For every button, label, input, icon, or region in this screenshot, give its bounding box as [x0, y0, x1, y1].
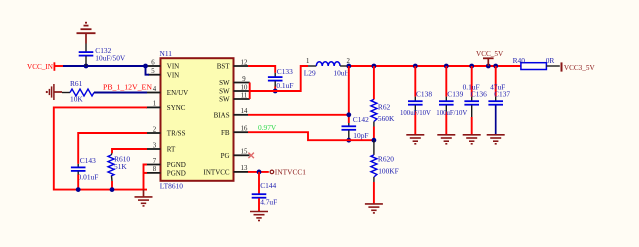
svg-text:C138: C138 — [416, 89, 432, 98]
svg-text:1: 1 — [306, 58, 309, 65]
pin 1 SYNC — [146, 101, 186, 112]
ground symbol C139 — [437, 135, 455, 144]
pin 13 INTVCC — [204, 165, 248, 176]
power port VCC_5V — [476, 50, 504, 66]
svg-text:7: 7 — [153, 158, 157, 165]
svg-text:9: 9 — [242, 76, 246, 83]
wire SW to L29 — [250, 66, 308, 91]
svg-text:R40: R40 — [513, 56, 526, 65]
capacitor C138 — [400, 66, 432, 134]
svg-text:12: 12 — [241, 59, 248, 66]
port VCC_IN — [27, 62, 63, 71]
junction C138 — [413, 64, 418, 69]
capacitor C139 — [436, 66, 467, 134]
no-connect X on pin 15 — [248, 153, 254, 159]
capacitor C142 — [342, 115, 370, 140]
svg-text:0R: 0R — [546, 56, 555, 65]
svg-text:VIN: VIN — [167, 71, 179, 79]
svg-text:8: 8 — [153, 166, 157, 173]
power symbol (earth style) above C132 — [77, 23, 96, 44]
pin 7 PGND — [144, 158, 186, 169]
ground symbol PGND — [135, 190, 153, 206]
svg-text:10: 10 — [241, 84, 248, 91]
svg-text:INTVCC: INTVCC — [204, 169, 230, 177]
pin 8 PGND — [144, 166, 186, 177]
svg-text:C137: C137 — [494, 89, 510, 98]
wire FB — [248, 132, 374, 140]
wire BIAS — [248, 114, 349, 116]
svg-text:C144: C144 — [260, 181, 276, 190]
svg-text:10pF: 10pF — [353, 131, 368, 140]
resistor R40 — [513, 56, 560, 69]
wire C143 to gnd rail — [77, 175, 79, 190]
svg-text:16: 16 — [241, 126, 248, 133]
svg-text:14: 14 — [241, 108, 248, 115]
junction C139 — [444, 64, 449, 69]
wire R61 to EN/UV — [94, 92, 147, 94]
resistor R620 — [371, 140, 399, 182]
wire SYNC loop — [54, 107, 147, 189]
resistor R610 — [108, 153, 130, 181]
ground symbol C136 — [463, 135, 481, 144]
pin 10 SW — [219, 84, 250, 95]
junction VCC_5V — [486, 64, 491, 69]
svg-text:13: 13 — [241, 165, 248, 172]
svg-text:C143: C143 — [80, 156, 96, 165]
capacitor C136 — [463, 66, 488, 134]
ground symbol C137 — [487, 135, 505, 144]
port VCC3_5V — [561, 62, 596, 72]
junction VIN pins — [143, 64, 148, 69]
junction BIAS/C142 — [346, 112, 351, 117]
wire VIN pin5 drop — [146, 66, 150, 75]
IC U-N11 LT8610 body — [161, 58, 234, 181]
pin 15 PG — [221, 149, 250, 160]
wire R620 to gnd — [373, 182, 375, 203]
svg-text:R62: R62 — [378, 102, 391, 111]
svg-text:VCC_IN: VCC_IN — [27, 63, 54, 71]
wire PGND pin8 stub — [144, 172, 148, 174]
pin 6 VIN — [146, 59, 180, 70]
svg-text:10K: 10K — [70, 95, 83, 104]
svg-text:C133: C133 — [277, 67, 293, 76]
wire BST to C133 — [248, 66, 275, 73]
svg-text:INTVCC1: INTVCC1 — [275, 167, 307, 176]
svg-text:11: 11 — [241, 92, 248, 99]
resistor R62 — [371, 66, 395, 127]
capacitor C144 — [252, 172, 278, 211]
svg-text:2: 2 — [153, 126, 157, 133]
wire PGND pins — [144, 165, 148, 190]
junction FB/R62/R620 — [372, 138, 377, 143]
svg-text:RT: RT — [167, 146, 176, 154]
svg-text:0.01uF: 0.01uF — [78, 173, 99, 182]
svg-text:BIAS: BIAS — [214, 111, 230, 119]
svg-text:BST: BST — [217, 63, 231, 71]
wire R62 to FB — [373, 127, 375, 141]
capacitor C137 — [488, 66, 510, 134]
svg-text:R620: R620 — [378, 154, 394, 163]
svg-text:C136: C136 — [471, 89, 487, 98]
svg-text:10uF/50V: 10uF/50V — [95, 53, 126, 62]
svg-text:0.1uF: 0.1uF — [276, 81, 293, 90]
junction VCC_IN/C132 — [84, 64, 89, 69]
junction L29/C142 branch — [346, 64, 351, 69]
svg-text:PG: PG — [221, 152, 230, 160]
svg-text:PGND: PGND — [167, 161, 186, 169]
svg-text:PGND: PGND — [167, 170, 186, 178]
junction C133/SW — [273, 89, 278, 94]
pin 2 TR/SS — [146, 126, 186, 137]
svg-text:TR/SS: TR/SS — [167, 130, 186, 138]
svg-text:VCC3_5V: VCC3_5V — [564, 64, 596, 72]
port INTVCC1 — [270, 167, 306, 176]
pin 14 BIAS — [214, 108, 248, 119]
junction C143/gnd rail — [76, 187, 81, 192]
svg-text:VCC_5V: VCC_5V — [476, 50, 504, 58]
svg-text:L29: L29 — [304, 68, 316, 77]
svg-text:EN/UV: EN/UV — [167, 89, 188, 97]
svg-text:LT8610: LT8610 — [160, 181, 183, 190]
capacitor C133 — [268, 67, 294, 90]
wire SW pins vertical — [249, 83, 251, 100]
svg-text:SW: SW — [219, 96, 230, 104]
junction C137 — [493, 64, 498, 69]
wire TR/SS to C143 — [78, 133, 147, 164]
svg-text:SW: SW — [219, 88, 230, 96]
capacitor C132 — [79, 44, 126, 67]
svg-text:1: 1 — [153, 101, 156, 108]
pin 12 BST — [217, 59, 250, 70]
svg-text:15: 15 — [241, 149, 248, 156]
svg-text:N11: N11 — [160, 49, 173, 58]
svg-text:C139: C139 — [447, 89, 463, 98]
svg-text:PB_1_12V_EN: PB_1_12V_EN — [103, 82, 152, 91]
wire VCC_IN to VIN — [63, 65, 147, 67]
svg-text:100KF: 100KF — [378, 166, 399, 175]
inductor L29 — [304, 58, 351, 77]
pin 4 EN/UV — [146, 86, 188, 97]
junction C142/FB — [346, 138, 351, 143]
svg-text:VIN: VIN — [167, 63, 179, 71]
junction R610/gnd rail — [110, 187, 115, 192]
svg-text:0.97V: 0.97V — [258, 123, 277, 132]
wire INTVCC — [248, 171, 269, 173]
wire VOUT rail — [349, 65, 521, 67]
svg-text:SYNC: SYNC — [167, 104, 186, 112]
svg-text:R61: R61 — [70, 79, 83, 88]
junction C136 — [469, 64, 474, 69]
signal-ground symbol left of R61 — [46, 84, 62, 100]
pin 3 RT — [146, 142, 176, 153]
junction R62 — [372, 64, 377, 69]
svg-text:SW: SW — [219, 79, 230, 87]
ground symbol C144 — [250, 212, 268, 221]
svg-text:100uF/10V: 100uF/10V — [436, 110, 467, 117]
svg-text:6: 6 — [151, 59, 155, 66]
svg-text:4.7uF: 4.7uF — [260, 198, 277, 207]
pin 9 SW — [219, 76, 250, 87]
svg-text:3: 3 — [153, 142, 157, 149]
capacitor C143 — [71, 156, 98, 181]
pin 5 VIN — [148, 68, 179, 79]
svg-text:FB: FB — [221, 129, 230, 137]
wire R610 to gnd rail — [111, 181, 113, 190]
wire C133 to SW rail — [274, 87, 276, 92]
junction INTVCC/C144 — [257, 170, 262, 175]
ground symbol R620 — [365, 204, 383, 213]
pin 11 SW — [219, 92, 250, 103]
svg-text:51K: 51K — [114, 162, 127, 171]
svg-text:100uF/10V: 100uF/10V — [400, 110, 431, 117]
wire VOUT down to BIAS and C142 — [348, 66, 350, 123]
resistor R61 — [62, 79, 94, 103]
pin 16 FB — [221, 126, 248, 137]
svg-text:C142: C142 — [353, 115, 369, 124]
svg-text:560K: 560K — [378, 114, 395, 123]
wire RT to R610 — [112, 149, 147, 153]
svg-text:5: 5 — [151, 68, 155, 75]
svg-text:4: 4 — [153, 86, 157, 93]
ground symbol C138 — [406, 135, 424, 144]
